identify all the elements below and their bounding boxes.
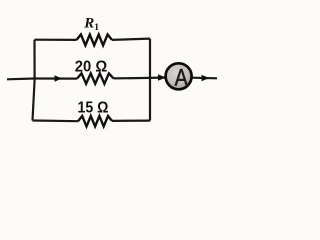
wire: node C to ammeter bbox=[150, 76, 166, 79]
wire: output lead from ammeter to right bbox=[192, 77, 217, 80]
wire: bottom branch right segment bbox=[112, 119, 150, 122]
arrow: arrowhead before ammeter bbox=[158, 74, 166, 80]
wire: left vertical bus (node B) bbox=[33, 40, 35, 121]
arrow: current direction arrowhead on input branch bbox=[55, 75, 63, 81]
wire: input lead from left edge to node B bbox=[7, 77, 35, 80]
resistor 20 ohm zigzag (middle branch) bbox=[77, 73, 114, 83]
svg-text:15 Ω: 15 Ω bbox=[78, 100, 109, 117]
svg-text:A: A bbox=[175, 64, 188, 91]
svg-text:20 Ω: 20 Ω bbox=[75, 58, 108, 75]
wire: top branch left segment bbox=[35, 39, 77, 41]
resistor 15 ohm zigzag bbox=[78, 116, 112, 126]
svg-text:R: R bbox=[83, 16, 94, 32]
svg-text:1: 1 bbox=[94, 23, 99, 33]
wire: right vertical bus (node C) bbox=[149, 39, 151, 121]
ammeter A1 body bbox=[166, 63, 192, 89]
resistor R1 zigzag bbox=[77, 35, 113, 46]
arrow: output arrowhead bbox=[202, 75, 210, 81]
wire: bottom branch left segment bbox=[33, 119, 79, 122]
wire: middle branch from node B to resistor, through 20ohm axis bbox=[35, 77, 78, 79]
wire: top branch right segment bbox=[112, 39, 150, 40]
wire: middle branch right segment to node C bbox=[114, 77, 151, 80]
